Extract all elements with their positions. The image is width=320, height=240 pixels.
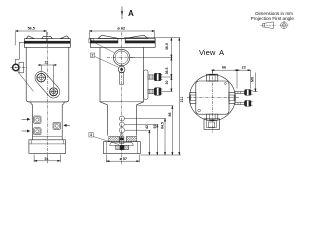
boss circle lower bbox=[50, 88, 58, 96]
flow arrow lower left bbox=[22, 130, 31, 133]
chain dimension line 36.5/36.5/30 bbox=[171, 38, 172, 92]
svg-text:36.5: 36.5 bbox=[165, 68, 169, 75]
svg-text:64.5: 64.5 bbox=[161, 122, 165, 129]
svg-text:36.5: 36.5 bbox=[165, 43, 169, 50]
svg-text:30: 30 bbox=[165, 81, 169, 85]
ext lines from circle features to right bbox=[125, 58, 181, 156]
projection symbol cone bbox=[260, 22, 275, 29]
left view upper body bbox=[26, 47, 31, 104]
W tab bbox=[190, 92, 196, 103]
svg-text:66: 66 bbox=[222, 65, 226, 69]
view A square face bbox=[196, 81, 229, 114]
port plug lower left bbox=[34, 128, 41, 135]
dimension 56.5 bbox=[15, 30, 47, 45]
right serration wedge bbox=[125, 35, 148, 38]
svg-text:Projection First angle: Projection First angle bbox=[251, 16, 295, 21]
dimension phi62 bbox=[89, 30, 155, 39]
connector centerline bbox=[11, 67, 28, 69]
svg-text:22: 22 bbox=[242, 65, 246, 69]
svg-text:A: A bbox=[128, 9, 134, 18]
svg-text:View: View bbox=[199, 48, 216, 57]
lower dims 42/53/64.5/88 lines bbox=[149, 106, 173, 155]
middle collar bbox=[103, 142, 140, 154]
small circle below bbox=[118, 66, 125, 73]
svg-text:ø 62: ø 62 bbox=[117, 25, 126, 30]
E bolt 1 bbox=[235, 89, 253, 95]
dimension 22 bbox=[38, 64, 57, 87]
body step to narrow bbox=[100, 100, 107, 136]
connector bracket bbox=[15, 42, 26, 63]
right port mounting pad bbox=[144, 70, 148, 99]
svg-text:3: 3 bbox=[90, 133, 92, 137]
svg-text:53: 53 bbox=[153, 125, 157, 129]
bottom bracket bbox=[204, 119, 220, 130]
svg-text:56.5: 56.5 bbox=[28, 27, 35, 31]
middle centerline bbox=[121, 32, 123, 165]
svg-text:211: 211 bbox=[180, 97, 184, 103]
boss circle upper bbox=[37, 73, 46, 82]
svg-text:ø 57: ø 57 bbox=[120, 157, 127, 161]
left view flange bbox=[24, 36, 70, 47]
connector boss bbox=[13, 64, 19, 70]
stem below small circle bbox=[120, 73, 124, 85]
flow arrow right bbox=[63, 124, 70, 127]
right port bolt 1 bbox=[148, 73, 162, 81]
big circle bbox=[113, 49, 129, 65]
middle flange bbox=[90, 35, 155, 47]
dims 66 and 22 bbox=[211, 70, 250, 89]
svg-text:M6: M6 bbox=[250, 77, 254, 82]
leader box 1 bbox=[89, 39, 114, 53]
svg-text:1: 1 bbox=[90, 39, 92, 43]
svg-text:51: 51 bbox=[44, 157, 48, 161]
S tab bbox=[207, 114, 218, 120]
projection symbol circles bbox=[280, 21, 289, 30]
small hole bbox=[198, 109, 201, 112]
svg-text:88: 88 bbox=[168, 113, 172, 117]
hatch band bbox=[109, 133, 137, 143]
leader box 2 bbox=[90, 53, 118, 67]
boss capsule bbox=[32, 69, 62, 101]
E bolt 2 bbox=[235, 100, 253, 106]
view A circle bbox=[189, 75, 235, 121]
svg-text:22: 22 bbox=[44, 61, 48, 65]
N tab bbox=[207, 74, 218, 81]
center screw bbox=[120, 133, 123, 136]
leader box 3 bbox=[89, 133, 119, 145]
connector rib diagonal bbox=[18, 71, 34, 91]
dimension 211 line bbox=[179, 38, 180, 155]
left view collar bbox=[29, 140, 66, 154]
corner dot bbox=[224, 83, 226, 85]
port plug right bbox=[53, 122, 60, 129]
flow arrow upper left bbox=[22, 118, 31, 121]
port plug upper left bbox=[34, 116, 41, 123]
view A crosshair bbox=[187, 97, 240, 99]
E tab bbox=[229, 92, 235, 103]
left view centerline bbox=[46, 32, 48, 164]
right port bolt 2 bbox=[148, 88, 162, 96]
middle upper body bbox=[99, 47, 101, 99]
left serration wedge bbox=[98, 35, 118, 38]
svg-text:Dimensions in mm: Dimensions in mm bbox=[255, 11, 293, 16]
stem bbox=[118, 38, 125, 40]
svg-text:42: 42 bbox=[145, 125, 149, 129]
view arrow A bbox=[121, 7, 123, 20]
dimension phi57 bbox=[106, 155, 139, 163]
dim M6 bbox=[253, 73, 258, 92]
narrow body circles bbox=[119, 116, 124, 133]
left view narrow body bbox=[31, 104, 33, 140]
svg-text:2: 2 bbox=[92, 54, 94, 58]
right dim reference from stem top bbox=[124, 37, 180, 39]
dimension 51 bbox=[34, 155, 60, 163]
